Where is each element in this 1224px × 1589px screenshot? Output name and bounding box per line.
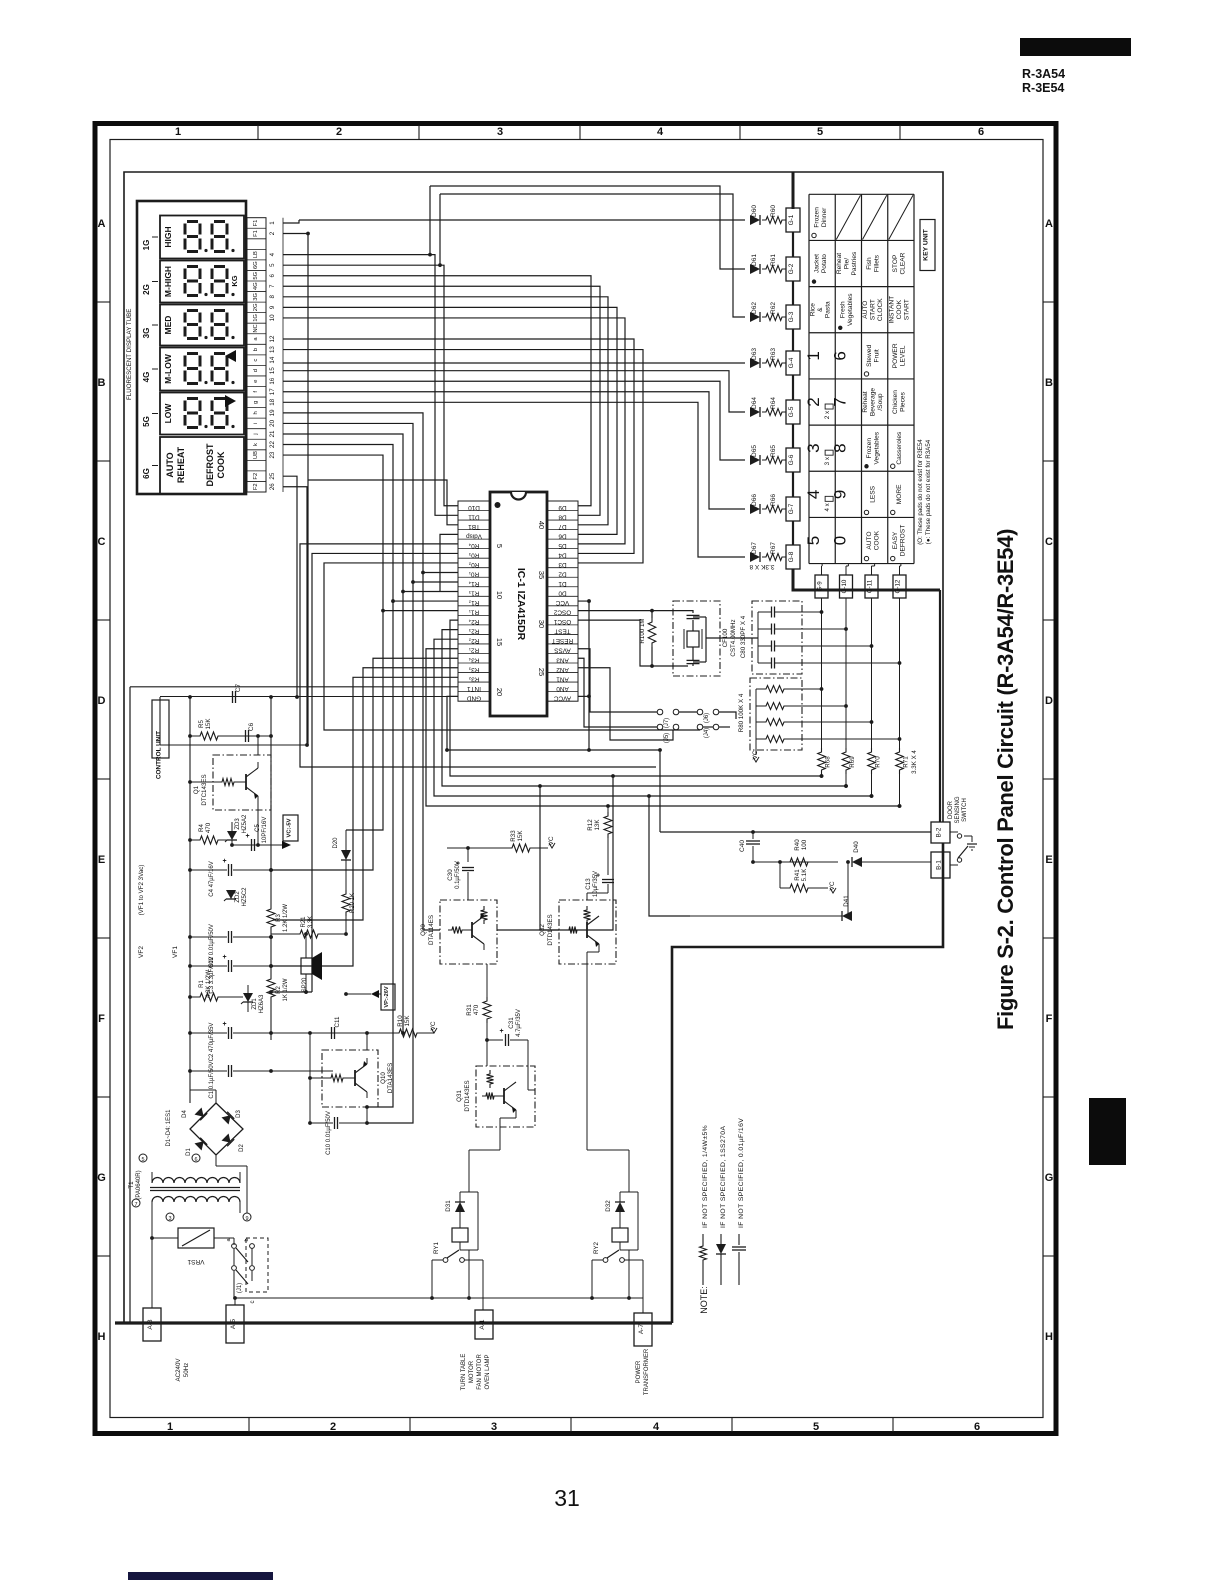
diode D67 bbox=[750, 552, 760, 562]
wires G9-G12 columns down bbox=[821, 598, 823, 748]
svg-text:4: 4 bbox=[653, 1421, 660, 1433]
svg-text:15K: 15K bbox=[404, 1015, 411, 1027]
svg-text:C80 330PF X 4: C80 330PF X 4 bbox=[740, 615, 747, 658]
svg-text:VF1: VF1 bbox=[172, 946, 179, 958]
svg-text:F: F bbox=[98, 1013, 105, 1025]
wire coil RY2 down bbox=[628, 1250, 630, 1298]
svg-text:D64: D64 bbox=[751, 397, 758, 409]
svg-text:19: 19 bbox=[269, 409, 276, 416]
svg-text:KG: KG bbox=[230, 275, 239, 286]
svg-text:j: j bbox=[253, 433, 259, 435]
svg-text:D2: D2 bbox=[239, 1144, 245, 1152]
svg-text:R2: R2 bbox=[276, 986, 282, 994]
svg-text:9: 9 bbox=[245, 1216, 248, 1222]
svg-text:6G: 6G bbox=[253, 261, 259, 269]
svg-text:(J7): (J7) bbox=[664, 718, 670, 728]
capacitor C11 bbox=[331, 1027, 333, 1039]
svg-text:D5: D5 bbox=[558, 542, 567, 549]
svg-text:IC-1 IZA415DR: IC-1 IZA415DR bbox=[515, 568, 527, 641]
wire Q1 bbox=[190, 781, 218, 783]
svg-text:10: 10 bbox=[269, 314, 276, 321]
svg-text:4G: 4G bbox=[253, 282, 259, 290]
svg-text:D7: D7 bbox=[558, 523, 567, 530]
black square right margin bbox=[1089, 1098, 1126, 1165]
display digit box 4 bbox=[160, 348, 244, 391]
VC supply R33 bbox=[549, 843, 555, 848]
capacitor bank C80 330PF X 4 bbox=[752, 601, 802, 674]
svg-text:STOP: STOP bbox=[892, 254, 899, 272]
svg-text:R21: R21 bbox=[301, 916, 307, 928]
wire IC R12 row bbox=[393, 600, 458, 602]
svg-text:MORE: MORE bbox=[896, 484, 903, 504]
svg-text:MED: MED bbox=[163, 316, 173, 335]
svg-text:R20 1K: R20 1K bbox=[350, 893, 356, 913]
capacitor C10 0.01uF/50V bbox=[334, 1117, 336, 1129]
svg-text:DTA114ES: DTA114ES bbox=[428, 915, 435, 945]
svg-text:D41: D41 bbox=[843, 895, 850, 907]
svg-text:D61: D61 bbox=[751, 254, 758, 266]
resistor R20 1K bbox=[342, 890, 350, 916]
wire pin4 to IC D11 bbox=[283, 255, 458, 516]
svg-text:F: F bbox=[1046, 1013, 1053, 1025]
wire pin8 to IC D7 bbox=[283, 297, 608, 525]
zener diode ZD3 HZ5A2 bbox=[227, 831, 237, 840]
wire pin25 filament2 bbox=[283, 476, 297, 697]
svg-text:20: 20 bbox=[495, 688, 504, 696]
svg-text:Q30: Q30 bbox=[420, 924, 427, 936]
svg-text:(VF1 to VF2 3Vac): (VF1 to VF2 3Vac) bbox=[138, 865, 145, 916]
svg-text:AC240V: AC240V bbox=[175, 1358, 182, 1382]
svg-text:R1₄: R1₄ bbox=[468, 580, 479, 587]
svg-text:0.1µF/50V: 0.1µF/50V bbox=[455, 861, 461, 889]
wire IC R11 row bbox=[383, 610, 458, 612]
svg-text:TB1: TB1 bbox=[468, 523, 480, 530]
svg-text:AN2: AN2 bbox=[556, 666, 569, 673]
capacitor C31 4.7uF/35V bbox=[487, 1039, 503, 1041]
svg-text:D62: D62 bbox=[751, 302, 758, 314]
wire IC Vdisp row bbox=[440, 534, 458, 592]
svg-text:Pasta: Pasta bbox=[825, 301, 832, 318]
svg-text:R33: R33 bbox=[510, 830, 517, 842]
svg-text:3: 3 bbox=[491, 1421, 497, 1433]
wire pin12 to IC D4 bbox=[283, 339, 634, 553]
svg-text:7: 7 bbox=[269, 284, 276, 288]
svg-text:Vdisp: Vdisp bbox=[466, 532, 482, 539]
svg-text:C2 470µF/35V: C2 470µF/35V bbox=[209, 1023, 215, 1062]
wire jumper feeds bbox=[719, 712, 736, 719]
svg-text:INSTANT: INSTANT bbox=[888, 296, 895, 324]
svg-text:HZ5A2: HZ5A2 bbox=[242, 814, 248, 833]
svg-text:D66: D66 bbox=[751, 494, 758, 506]
svg-text:3.3K: 3.3K bbox=[308, 916, 314, 928]
svg-text:b: b bbox=[244, 1238, 250, 1241]
svg-text:D0: D0 bbox=[558, 590, 567, 597]
capacitor C3 3.3uF/50V bbox=[228, 960, 230, 972]
svg-text:Fish: Fish bbox=[866, 257, 873, 270]
svg-text:DOOR: DOOR bbox=[948, 800, 954, 819]
svg-text:Figure S-2. Control Panel Circ: Figure S-2. Control Panel Circuit (R-3A5… bbox=[993, 529, 1018, 1030]
svg-text:c: c bbox=[250, 1301, 256, 1304]
svg-text:F1: F1 bbox=[253, 220, 259, 227]
svg-text:POWER: POWER bbox=[636, 1360, 642, 1383]
relay contact RY1 bbox=[432, 1259, 443, 1261]
svg-text:D63: D63 bbox=[751, 348, 758, 360]
svg-text:VRS1: VRS1 bbox=[187, 1258, 204, 1265]
svg-text:D11: D11 bbox=[468, 513, 480, 520]
svg-text:16: 16 bbox=[269, 377, 276, 384]
svg-text:SP20: SP20 bbox=[302, 977, 308, 992]
wire pin15 to diode D64 bbox=[283, 371, 745, 412]
svg-text:Dinner: Dinner bbox=[821, 207, 828, 227]
svg-text:Pieces: Pieces bbox=[900, 391, 907, 411]
svg-text:R68: R68 bbox=[825, 756, 832, 768]
ceramic resonator CF100 CST4.00MHz bbox=[673, 601, 720, 676]
svg-text:G-9: G-9 bbox=[817, 581, 824, 592]
svg-text:DEFROST: DEFROST bbox=[205, 443, 215, 487]
relay coil RY2 bbox=[612, 1228, 628, 1242]
svg-text:R0₂: R0₂ bbox=[468, 561, 479, 568]
svg-text:2 x: 2 x bbox=[824, 410, 831, 419]
capacitor C2 470uF/35V bbox=[228, 1027, 230, 1039]
svg-text:4: 4 bbox=[804, 490, 823, 499]
svg-text:R2₁: R2₁ bbox=[469, 647, 479, 654]
bridge rectifier D1-D4 1ES1 bbox=[190, 1103, 243, 1155]
connector B-2 bbox=[931, 822, 950, 843]
svg-text:1K 1/2W: 1K 1/2W bbox=[283, 978, 289, 1001]
svg-text:Rice: Rice bbox=[810, 303, 817, 317]
VC supply R41 bbox=[830, 888, 836, 893]
connector G-6 bbox=[786, 448, 800, 472]
svg-text:20: 20 bbox=[269, 419, 276, 426]
resistor R5 15K bbox=[190, 735, 196, 737]
svg-text:VP:-26V: VP:-26V bbox=[384, 986, 390, 1007]
display digit box 2 bbox=[160, 261, 244, 303]
transistor Q32 DTD143ES bbox=[559, 900, 616, 964]
svg-text:21: 21 bbox=[269, 430, 276, 437]
capacitor C5 10PF/16V bbox=[251, 839, 253, 851]
display digit box 1 bbox=[160, 216, 244, 259]
svg-text:k: k bbox=[253, 443, 259, 446]
connector A-7 bbox=[634, 1313, 652, 1346]
svg-text:2G: 2G bbox=[142, 284, 151, 295]
svg-text:6: 6 bbox=[269, 273, 276, 277]
svg-text:OSC1: OSC1 bbox=[553, 618, 571, 625]
svg-text:5: 5 bbox=[813, 1421, 819, 1433]
inner border frame bbox=[110, 140, 1043, 1418]
svg-text:EASY: EASY bbox=[892, 531, 899, 549]
svg-text:Potato: Potato bbox=[821, 254, 828, 273]
svg-text:4.7µF/35V: 4.7µF/35V bbox=[516, 1009, 522, 1037]
display digit box 5 bbox=[160, 393, 244, 435]
svg-text:31: 31 bbox=[554, 1485, 580, 1511]
wire zd3 row bbox=[232, 844, 282, 846]
svg-text:4: 4 bbox=[269, 252, 276, 256]
svg-text:A-5: A-5 bbox=[230, 1319, 237, 1330]
svg-text:D9: D9 bbox=[558, 504, 567, 511]
svg-text:5G: 5G bbox=[253, 271, 259, 279]
resistor R33 15K bbox=[468, 847, 508, 849]
svg-text:+: + bbox=[222, 954, 226, 961]
svg-text:1: 1 bbox=[804, 351, 823, 360]
svg-text:GND: GND bbox=[467, 694, 482, 701]
svg-text:VCC: VCC bbox=[555, 599, 569, 606]
svg-text:NOTE:: NOTE: bbox=[699, 1286, 709, 1314]
svg-text:CLOCK: CLOCK bbox=[877, 298, 884, 321]
wire pin17 to diode D66 bbox=[283, 392, 745, 509]
svg-text:OVEN LAMP: OVEN LAMP bbox=[485, 1354, 491, 1389]
wire jumper J6 link bbox=[679, 711, 697, 713]
svg-text:POWER: POWER bbox=[892, 343, 899, 368]
connector G-4 bbox=[786, 351, 800, 375]
wire Q32 base tap bbox=[540, 786, 559, 930]
VC supply R10 bbox=[431, 1028, 437, 1033]
resistor R31 470 bbox=[483, 997, 491, 1023]
svg-text:C31: C31 bbox=[508, 1017, 515, 1029]
svg-text:START: START bbox=[903, 299, 910, 320]
svg-text:M-HIGH: M-HIGH bbox=[163, 266, 173, 297]
resistor R12 13K bbox=[604, 812, 612, 838]
svg-text:R0₃: R0₃ bbox=[468, 551, 479, 558]
svg-text:7: 7 bbox=[134, 1202, 137, 1208]
wire IC R22 strobe bbox=[434, 639, 872, 796]
svg-text:R69: R69 bbox=[849, 756, 856, 768]
svg-text:D: D bbox=[98, 695, 106, 707]
wire pin14 to diode D63 bbox=[283, 362, 745, 364]
svg-text:470: 470 bbox=[473, 1004, 480, 1015]
wire B-2 row bbox=[660, 831, 931, 833]
right rail bbox=[270, 697, 272, 905]
wire bus down to B-2 bbox=[939, 590, 941, 822]
svg-text:C: C bbox=[1045, 536, 1053, 548]
svg-text:15: 15 bbox=[269, 367, 276, 374]
svg-text:VC: VC bbox=[548, 836, 555, 845]
svg-text:13: 13 bbox=[269, 346, 276, 353]
svg-text:HZ6A3: HZ6A3 bbox=[259, 994, 265, 1013]
capacitor C4 47uF/16V bbox=[228, 864, 230, 876]
top gnd row wire bbox=[160, 696, 458, 698]
svg-text:0: 0 bbox=[830, 536, 849, 545]
capacitor C12 0.01uF/50V bbox=[228, 931, 230, 943]
wire pin20 grid line bbox=[283, 423, 413, 1123]
wire pin21 grid line bbox=[283, 434, 403, 1033]
svg-text:OSC2: OSC2 bbox=[553, 609, 571, 616]
wire IC R14 row bbox=[413, 581, 458, 583]
svg-text:26: 26 bbox=[269, 483, 276, 490]
resistor R1 4.3K 1/2W bbox=[190, 996, 196, 998]
wire B-1 row bbox=[753, 861, 838, 863]
zener diode ZD2 HZ5C2 bbox=[226, 890, 236, 899]
wire IC R23 strobe bbox=[442, 630, 846, 786]
svg-text:3G: 3G bbox=[142, 328, 151, 339]
svg-text:25: 25 bbox=[269, 472, 276, 479]
svg-text:6: 6 bbox=[194, 1157, 197, 1163]
svg-text:10PF/16V: 10PF/16V bbox=[262, 817, 268, 844]
wire pin16 to diode D65 bbox=[283, 381, 745, 460]
svg-text:40: 40 bbox=[537, 521, 546, 529]
svg-text:VC: VC bbox=[829, 881, 836, 890]
connector G-5 bbox=[786, 400, 800, 424]
svg-text:(O: These pads do not exist fo: (O: These pads do not exist for R3E54 bbox=[917, 439, 924, 545]
svg-text:3 x: 3 x bbox=[824, 456, 831, 465]
wire filament rail bbox=[307, 234, 309, 745]
capacitor C7 bbox=[232, 691, 234, 703]
svg-text:15: 15 bbox=[495, 638, 504, 646]
svg-text:C30: C30 bbox=[447, 869, 454, 881]
wire to diode D62 bbox=[440, 194, 745, 317]
svg-text:2G: 2G bbox=[253, 303, 259, 311]
svg-text:RESET: RESET bbox=[552, 637, 573, 644]
svg-text:C4 47µF/16V: C4 47µF/16V bbox=[209, 861, 215, 896]
svg-text:10: 10 bbox=[495, 591, 504, 599]
svg-text:30: 30 bbox=[537, 620, 546, 628]
svg-text:R71: R71 bbox=[903, 756, 910, 768]
svg-text:G-11: G-11 bbox=[867, 579, 874, 593]
wire pin7 to IC D8 bbox=[283, 286, 600, 515]
svg-text:D3: D3 bbox=[236, 1110, 242, 1118]
svg-text:18: 18 bbox=[269, 398, 276, 405]
wire IC R24 strobe bbox=[450, 620, 822, 776]
display pin strip bbox=[247, 218, 266, 492]
svg-text:R3₂: R3₂ bbox=[468, 675, 479, 682]
zener diode ZD1 HZ6A3 bbox=[243, 993, 253, 1002]
svg-text:d: d bbox=[253, 369, 259, 372]
svg-text:Fresh: Fresh bbox=[840, 301, 847, 318]
wire D41 tap bbox=[649, 796, 690, 916]
svg-text:D65: D65 bbox=[751, 445, 758, 457]
capacitor C6 bbox=[245, 730, 247, 742]
svg-text:B-1: B-1 bbox=[936, 860, 943, 870]
diode D65 bbox=[750, 455, 760, 465]
wire G-8 to G-9 bus bbox=[793, 569, 940, 590]
svg-text:R4: R4 bbox=[198, 823, 205, 831]
svg-text:R12: R12 bbox=[587, 819, 594, 831]
wire R33 feed bbox=[447, 847, 468, 849]
control unit label bbox=[152, 700, 169, 758]
svg-text:D1: D1 bbox=[186, 1148, 192, 1156]
diode D60 bbox=[750, 215, 760, 225]
bottom left dark bar bbox=[128, 1572, 273, 1580]
relay RY1 coil loop bbox=[460, 1191, 478, 1193]
capacitor C13 10PF/35V bbox=[602, 879, 614, 881]
svg-text:DTC143ES: DTC143ES bbox=[201, 774, 208, 805]
wire IC R02 key row bbox=[324, 563, 700, 730]
svg-text:A-3: A-3 bbox=[147, 1319, 154, 1330]
svg-text:Beverage: Beverage bbox=[870, 388, 877, 417]
main thick bus bottom bbox=[115, 1321, 672, 1324]
transistor Q1 DTC143ES bbox=[213, 755, 271, 810]
svg-text:E: E bbox=[1045, 854, 1052, 866]
varistor VRS1 bbox=[152, 1237, 178, 1239]
diode D64 bbox=[750, 407, 760, 417]
resistor R63 bbox=[762, 360, 786, 367]
svg-text:Q10: Q10 bbox=[380, 1072, 387, 1084]
svg-text:AN3: AN3 bbox=[556, 656, 569, 663]
svg-text:1G: 1G bbox=[142, 240, 151, 251]
wire sp20 row extension bbox=[271, 991, 312, 993]
svg-text:Reheat: Reheat bbox=[862, 391, 869, 412]
svg-text:CONTROL UNIT: CONTROL UNIT bbox=[156, 731, 163, 779]
svg-text:D8: D8 bbox=[558, 513, 567, 520]
svg-text:D6: D6 bbox=[558, 532, 567, 539]
wires oscillator bbox=[578, 611, 693, 613]
svg-text:Stewed: Stewed bbox=[866, 345, 873, 367]
wire Q32 to relay RY2 bbox=[598, 944, 600, 952]
svg-text:D1~D4: 1ES1: D1~D4: 1ES1 bbox=[166, 1109, 172, 1147]
wire IC R01 row bbox=[423, 571, 458, 573]
svg-text:D31: D31 bbox=[445, 1200, 452, 1212]
svg-text:A: A bbox=[1045, 218, 1053, 230]
svg-text:2: 2 bbox=[269, 231, 276, 235]
svg-text:50Hz: 50Hz bbox=[183, 1363, 190, 1377]
svg-text:G-10: G-10 bbox=[841, 579, 848, 593]
svg-text:COOK: COOK bbox=[216, 451, 226, 479]
svg-text:9: 9 bbox=[830, 490, 849, 499]
svg-text:LEVEL: LEVEL bbox=[900, 345, 907, 366]
jumper J1 contacts bbox=[232, 1244, 237, 1249]
resistor R62 bbox=[762, 314, 786, 321]
svg-text:R60: R60 bbox=[770, 205, 777, 217]
resistor R65 bbox=[762, 457, 786, 464]
svg-text:B: B bbox=[98, 377, 106, 389]
svg-text:b: b bbox=[253, 348, 259, 351]
svg-text:G-12: G-12 bbox=[895, 579, 902, 593]
auto reheat defrost cook box bbox=[160, 437, 244, 494]
resistor R21 3.3K bbox=[271, 933, 296, 935]
left supply rail bbox=[129, 687, 131, 1323]
diode D32 bbox=[619, 1192, 621, 1202]
svg-text:(J1): (J1) bbox=[237, 1283, 243, 1293]
VC supply R80 bbox=[753, 757, 759, 762]
svg-text:IF NOT SPECIFIED, 0.01µF/16V: IF NOT SPECIFIED, 0.01µF/16V bbox=[738, 1118, 745, 1228]
svg-text:ZD2: ZD2 bbox=[235, 891, 241, 903]
diode D66 bbox=[750, 504, 760, 514]
svg-text:C13: C13 bbox=[585, 878, 592, 890]
wire table columns to G9-G12 bbox=[821, 564, 823, 566]
svg-text:D40: D40 bbox=[853, 841, 860, 853]
svg-text:R3₃: R3₃ bbox=[468, 666, 479, 673]
svg-text:E: E bbox=[98, 854, 105, 866]
svg-text:F2: F2 bbox=[253, 473, 259, 480]
wire VCC rail bbox=[578, 601, 589, 750]
op-amp IC-1 IZA415DR microcontroller bbox=[490, 492, 547, 716]
speaker SP20 bbox=[301, 958, 312, 974]
wire IC INT1 line bbox=[130, 686, 458, 688]
svg-text:D60: D60 bbox=[751, 205, 758, 217]
svg-text:D4: D4 bbox=[182, 1110, 188, 1118]
svg-text:DEFROST: DEFROST bbox=[900, 525, 907, 557]
svg-text:8: 8 bbox=[269, 295, 276, 299]
wire coil RY1 down bbox=[468, 1250, 470, 1298]
svg-text:&: & bbox=[817, 307, 824, 312]
wire IC R04 key row bbox=[300, 544, 656, 767]
svg-text:G-7: G-7 bbox=[788, 503, 795, 514]
wire IC R32 line bbox=[271, 677, 458, 966]
svg-text:5: 5 bbox=[804, 536, 823, 545]
svg-text:6: 6 bbox=[830, 351, 849, 360]
svg-text:D10: D10 bbox=[468, 504, 480, 511]
svg-text:+: + bbox=[499, 1028, 503, 1035]
wire IC R21 strobe bbox=[426, 649, 900, 806]
svg-text:VC: VC bbox=[752, 750, 759, 759]
svg-text:C1 0.1µF/50V: C1 0.1µF/50V bbox=[209, 1061, 215, 1098]
svg-text:M-LOW: M-LOW bbox=[163, 353, 173, 384]
svg-text:3: 3 bbox=[497, 126, 503, 138]
svg-text:R80 100K X 4: R80 100K X 4 bbox=[738, 693, 745, 732]
svg-text:D3: D3 bbox=[558, 561, 567, 568]
svg-text:+: + bbox=[245, 833, 249, 840]
svg-text:R67: R67 bbox=[770, 542, 777, 554]
net arrow VC -5V bbox=[282, 841, 291, 849]
